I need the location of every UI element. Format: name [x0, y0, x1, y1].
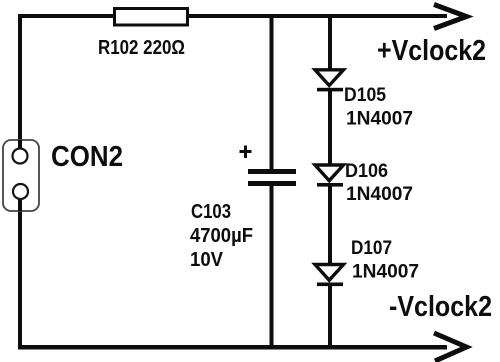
svg-text:10V: 10V: [190, 249, 224, 271]
svg-text:-Vclock2: -Vclock2: [389, 291, 492, 323]
svg-text:R102 220Ω: R102 220Ω: [98, 37, 185, 59]
svg-text:D106: D106: [345, 161, 388, 182]
svg-text:CON2: CON2: [51, 141, 123, 173]
svg-text:D107: D107: [351, 238, 392, 259]
svg-text:+Vclock2: +Vclock2: [377, 35, 486, 67]
svg-text:C103: C103: [191, 201, 231, 223]
svg-text:1N4007: 1N4007: [346, 109, 413, 130]
svg-text:D105: D105: [344, 85, 386, 106]
svg-text:1N4007: 1N4007: [346, 184, 413, 205]
svg-text:4700µF: 4700µF: [190, 225, 253, 247]
svg-text:1N4007: 1N4007: [352, 262, 419, 283]
